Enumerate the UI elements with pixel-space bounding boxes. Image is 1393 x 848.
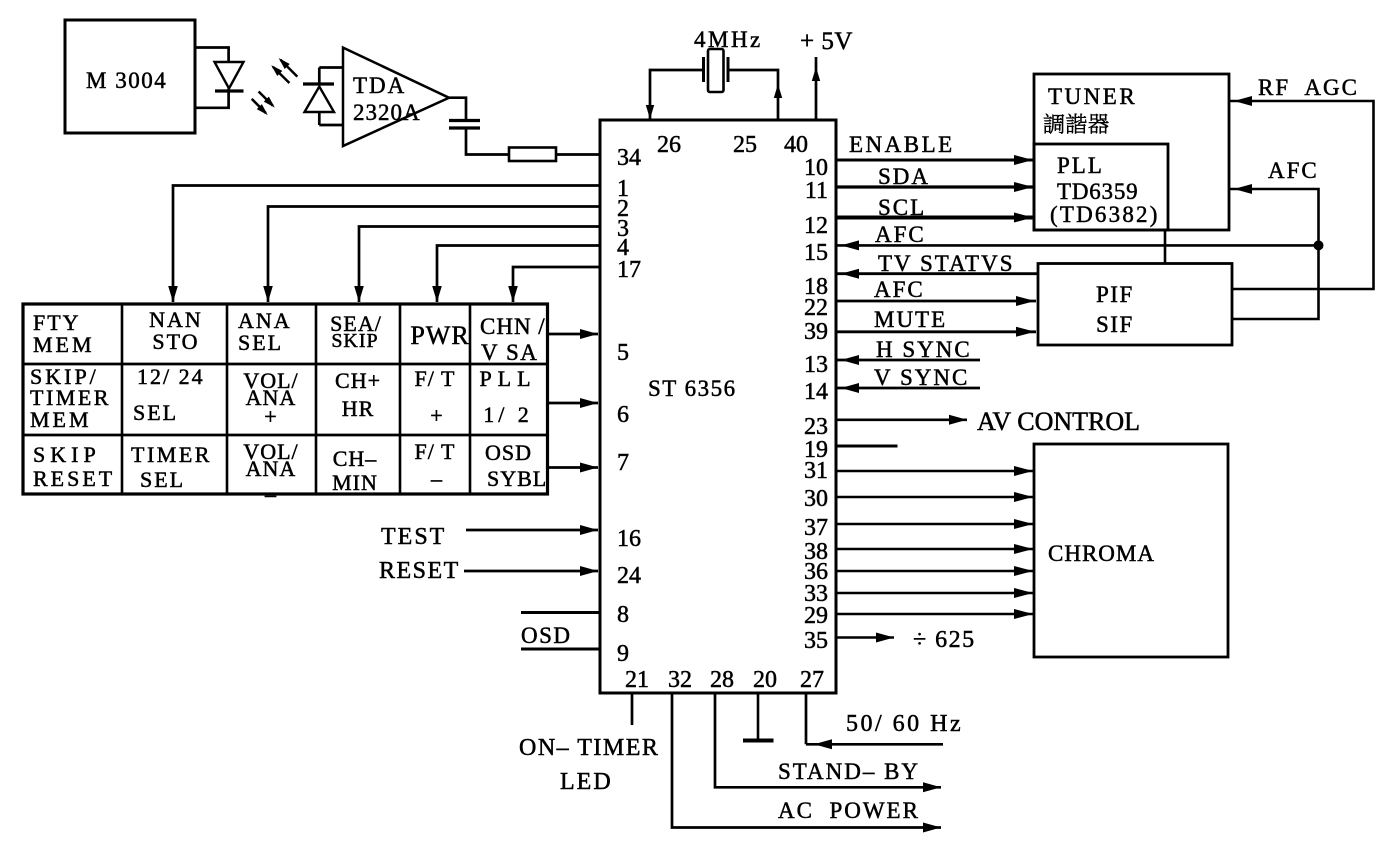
svg-text:PLL: PLL	[1057, 153, 1104, 178]
TUNER block	[1034, 74, 1229, 230]
wire pin 28 STAND-BY	[715, 693, 941, 792]
CHROMA block	[1034, 444, 1228, 657]
pin 10 label	[804, 155, 828, 181]
svg-text:ST 6356: ST 6356	[648, 376, 737, 401]
wire RESET to pin 24	[464, 566, 598, 576]
wire pin 36 to CHROMA	[836, 566, 1034, 576]
AFC label right	[1268, 158, 1319, 183]
wire PLL to PIF	[1164, 230, 1167, 264]
svg-text:CH–: CH–	[333, 446, 378, 471]
V SYNC label	[874, 365, 969, 390]
svg-text:PLL: PLL	[479, 366, 536, 391]
svg-text:28: 28	[710, 667, 734, 693]
AFC label pin 15	[875, 222, 926, 247]
svg-text:7: 7	[617, 450, 629, 476]
wire pin 33 to CHROMA	[836, 588, 1034, 598]
svg-text:14: 14	[804, 379, 828, 405]
wire pin 1 to key matrix column 1	[168, 186, 600, 303]
junction AFC node	[1314, 240, 1324, 250]
svg-text:MIN: MIN	[332, 470, 378, 495]
pin 30 label	[804, 486, 828, 512]
svg-text:+: +	[264, 404, 277, 429]
svg-text:+ 5V: + 5V	[800, 28, 853, 55]
pin 38 label	[804, 539, 828, 565]
pin 6 label	[617, 402, 629, 428]
+5V supply	[800, 28, 853, 55]
svg-text:22: 22	[804, 295, 828, 321]
divide by 625 label	[913, 627, 976, 653]
svg-text:MEM: MEM	[30, 407, 92, 432]
wire 50/60Hz to pin 27	[806, 693, 943, 749]
svg-text:ENABLE: ENABLE	[849, 132, 955, 157]
svg-text:SDA: SDA	[878, 164, 930, 189]
svg-text:29: 29	[804, 603, 828, 629]
ground pin 20	[743, 693, 774, 741]
svg-text:20: 20	[753, 667, 777, 693]
wire pin 38 to CHROMA	[836, 544, 1034, 554]
svg-text:21: 21	[625, 667, 649, 693]
pin 19 label	[804, 437, 828, 463]
50/60Hz label	[846, 711, 963, 737]
svg-text:50/ 60 Hz: 50/ 60 Hz	[846, 711, 963, 737]
svg-text:RESET: RESET	[379, 558, 460, 584]
svg-text:ON– TIMER: ON– TIMER	[519, 735, 659, 761]
svg-text:–: –	[430, 466, 443, 491]
key OSD SYBL	[485, 440, 547, 491]
AFC label pin 22	[874, 277, 925, 302]
svg-text:CHROMA: CHROMA	[1048, 541, 1155, 566]
svg-text:5: 5	[617, 340, 629, 366]
svg-text:24: 24	[617, 563, 641, 589]
pin 31 label	[804, 458, 828, 484]
pin 4 label	[617, 235, 629, 261]
svg-text:12: 12	[804, 213, 828, 239]
H SYNC label	[876, 337, 972, 362]
svg-text:4MHz: 4MHz	[694, 27, 763, 52]
pin 36 label	[804, 559, 828, 585]
pin 20 label	[753, 667, 777, 693]
SCL label	[878, 195, 926, 220]
pin 40 label	[784, 132, 808, 158]
wire pin 13 H SYNC	[836, 355, 980, 365]
svg-text:(TD6382): (TD6382)	[1050, 202, 1160, 227]
wire M3004 to LED anode	[195, 48, 229, 63]
LED D1 infrared emitter	[215, 62, 244, 92]
crystal X1 4MHz	[694, 27, 763, 92]
svg-text:SYBL: SYBL	[487, 466, 547, 491]
IC U4 PLL TD6359 block	[1034, 144, 1168, 230]
wire pin 2 to key matrix column 2	[263, 207, 600, 303]
key SKIP RESET	[33, 442, 115, 491]
pin 27 label	[800, 667, 824, 693]
pin 17 label	[617, 257, 641, 283]
key CHN/VSA	[480, 314, 546, 365]
svg-text:HR: HR	[342, 396, 375, 421]
svg-text:31: 31	[804, 458, 828, 484]
key 12/24 SEL	[133, 364, 205, 425]
pin 18 label	[804, 274, 828, 300]
wire pin 15 AFC	[836, 240, 1319, 250]
pin 25 label	[733, 132, 757, 158]
STAND-BY label	[778, 759, 920, 784]
svg-text:34: 34	[617, 145, 641, 171]
svg-text:F/ T: F/ T	[415, 439, 456, 464]
wire pin 3 to key matrix column 3	[354, 227, 600, 303]
IR beam arrows lower pair	[252, 92, 278, 118]
svg-text:SEL: SEL	[238, 330, 283, 355]
RESET signal label	[379, 558, 460, 584]
pin 1 label	[617, 176, 629, 202]
svg-text:V SYNC: V SYNC	[874, 365, 969, 390]
pin 33 label	[804, 581, 828, 607]
wire key matrix row to pin 5	[548, 329, 599, 339]
pin 35 label	[804, 628, 828, 654]
pin 13 label	[804, 352, 828, 378]
pin 2 label	[617, 196, 629, 222]
pin 32 label	[668, 667, 692, 693]
svg-text:SEL: SEL	[140, 467, 185, 492]
wire pin 17 to key matrix column 5	[508, 267, 600, 302]
svg-text:STAND– BY: STAND– BY	[778, 759, 920, 784]
key SKIP/TIMER MEM	[30, 364, 111, 432]
svg-text:LED: LED	[560, 769, 613, 795]
pin 39 label	[804, 319, 828, 345]
svg-text:16: 16	[617, 526, 641, 552]
svg-text:CH+: CH+	[335, 368, 381, 393]
svg-text:32: 32	[668, 667, 692, 693]
wire pin 14 V SYNC	[836, 383, 980, 393]
pin 26 label	[657, 132, 681, 158]
svg-text:15: 15	[804, 240, 828, 266]
svg-text:÷ 625: ÷ 625	[913, 627, 976, 653]
svg-text:35: 35	[804, 628, 828, 654]
svg-text:SCL: SCL	[878, 195, 926, 220]
svg-text:CHN /: CHN /	[480, 314, 546, 339]
wire pin 29 to CHROMA	[836, 609, 1034, 619]
pin 24 label	[617, 563, 641, 589]
key F/T -	[415, 439, 456, 491]
svg-text:AFC: AFC	[1268, 158, 1319, 183]
wire pin 32 AC POWER	[672, 693, 941, 833]
svg-text:37: 37	[804, 515, 828, 541]
tuner Chinese label	[1044, 114, 1109, 134]
key FTY MEM	[33, 310, 95, 357]
key TIMER SEL	[131, 442, 212, 492]
op-amp U3 TDA2320A	[343, 48, 449, 146]
pin 5 label	[617, 340, 629, 366]
wire capacitor to resistor	[466, 128, 509, 155]
wire pin 35 divider output	[836, 633, 894, 643]
keyboard matrix table frame	[23, 304, 548, 494]
key F/T +	[415, 366, 456, 428]
capacitor C1	[449, 121, 480, 129]
wire key matrix row to pin 6	[548, 398, 599, 408]
svg-text:PWR: PWR	[410, 321, 469, 350]
svg-text:+: +	[430, 403, 443, 428]
pin 34 label	[617, 145, 641, 171]
pin 8 label	[617, 602, 629, 628]
svg-text:26: 26	[657, 132, 681, 158]
wire pin 22 AFC to PIF	[836, 296, 1036, 306]
wire resistor to pin 34	[556, 153, 600, 156]
svg-text:AC POWER: AC POWER	[778, 798, 920, 823]
OSD signal label	[521, 623, 572, 648]
SDA label	[878, 164, 930, 189]
key VOL/ANA-	[243, 439, 298, 499]
wire pin 39 MUTE to PIF	[836, 327, 1036, 337]
svg-text:11: 11	[805, 178, 828, 204]
IR beam arrows upper pair	[269, 55, 298, 83]
svg-text:SKIP: SKIP	[331, 330, 378, 352]
wire crystal to pin 25	[728, 70, 782, 120]
photodiode D2	[303, 84, 334, 112]
key SEA/SKIP	[330, 311, 382, 352]
svg-text:V SA: V SA	[481, 340, 538, 365]
wire pin 21 to LED indicator	[631, 693, 634, 725]
wire photodiode to amplifier input	[319, 68, 343, 126]
svg-text:SEL: SEL	[133, 400, 178, 425]
resistor R1	[509, 148, 556, 162]
svg-text:MUTE: MUTE	[874, 307, 947, 332]
wire amplifier output to capacitor	[449, 98, 466, 120]
wire pin 37 to CHROMA	[836, 519, 1034, 529]
wire pin 12 SCL to PLL	[836, 213, 1034, 223]
pin 12 label	[804, 213, 828, 239]
pin 16 label	[617, 526, 641, 552]
MUTE label	[874, 307, 947, 332]
pin 22 label	[804, 295, 828, 321]
key NAN STO	[149, 307, 203, 354]
ENABLE label	[849, 132, 955, 157]
svg-text:30: 30	[804, 486, 828, 512]
svg-text:STO: STO	[152, 329, 199, 354]
key VOL/ANA+	[243, 368, 298, 429]
svg-text:TEST: TEST	[381, 524, 446, 550]
wire pin 30 to CHROMA	[836, 492, 1034, 502]
key CH+ HR	[335, 368, 381, 421]
AV CONTROL label	[977, 407, 1140, 436]
svg-text:H SYNC: H SYNC	[876, 337, 972, 362]
svg-text:13: 13	[804, 352, 828, 378]
wire pin 11 SDA to PLL	[836, 182, 1034, 192]
svg-text:25: 25	[733, 132, 757, 158]
IC U1 ST6356 microcontroller	[600, 120, 836, 693]
PIF SIF block	[1038, 264, 1232, 346]
pin 28 label	[710, 667, 734, 693]
svg-text:RESET: RESET	[33, 466, 115, 491]
svg-text:2320A: 2320A	[353, 100, 421, 125]
AC POWER label	[778, 798, 920, 823]
pin 11 label	[805, 178, 828, 204]
svg-text:AV CONTROL: AV CONTROL	[977, 407, 1140, 436]
svg-text:17: 17	[617, 257, 641, 283]
svg-text:M 3004: M 3004	[86, 68, 167, 93]
wire AFC loop	[1229, 184, 1319, 319]
RF AGC label	[1258, 75, 1359, 100]
svg-text:1/ 2: 1/ 2	[483, 402, 533, 427]
svg-text:RF AGC: RF AGC	[1258, 75, 1359, 100]
key PWR	[410, 321, 469, 350]
key CH- MIN	[332, 446, 378, 495]
svg-text:TDA: TDA	[353, 73, 406, 98]
svg-text:TUNER: TUNER	[1048, 84, 1137, 109]
svg-text:F/ T: F/ T	[415, 366, 456, 391]
wire pin 10 ENABLE to PLL	[836, 155, 1034, 165]
pin 21 label	[625, 667, 649, 693]
wire to pin 8	[521, 611, 600, 614]
svg-text:SIF: SIF	[1096, 312, 1134, 337]
pin 3 label	[617, 216, 629, 242]
wire pin 19	[836, 445, 898, 448]
wire pin 23 AV CONTROL	[836, 415, 967, 425]
svg-text:27: 27	[800, 667, 824, 693]
wire pin 4 to key matrix column 4	[432, 246, 600, 303]
svg-text:PIF: PIF	[1096, 282, 1134, 307]
TEST signal label	[381, 524, 446, 550]
wire +5V to pin 40	[812, 57, 820, 120]
svg-text:AFC: AFC	[875, 222, 926, 247]
wire pin 31 to CHROMA	[836, 466, 1034, 476]
svg-text:9: 9	[617, 641, 629, 667]
pin 29 label	[804, 603, 828, 629]
pin 9 label	[617, 641, 629, 667]
key PLL 1/2	[479, 366, 536, 427]
wire pin 18 TV STATUS to PIF	[836, 269, 1038, 279]
svg-text:MEM: MEM	[33, 332, 95, 357]
svg-text:SKIP: SKIP	[33, 442, 101, 467]
svg-text:39: 39	[804, 319, 828, 345]
pin 15 label	[804, 240, 828, 266]
TV STATVS label	[878, 251, 1015, 276]
svg-text:OSD: OSD	[485, 440, 532, 465]
svg-text:_: _	[264, 474, 277, 499]
wire crystal to pin 26	[646, 70, 704, 119]
svg-text:TD6359: TD6359	[1057, 179, 1138, 204]
wire TEST to pin 16	[466, 525, 598, 535]
wire RF AGC loop	[1229, 96, 1374, 289]
pin 37 label	[804, 515, 828, 541]
svg-text:TIMER: TIMER	[131, 442, 212, 467]
svg-text:6: 6	[617, 402, 629, 428]
svg-text:OSD: OSD	[521, 623, 572, 648]
IC U2 M3004 infrared receiver box	[65, 20, 195, 133]
wire OSD to pin 9	[521, 648, 600, 651]
svg-text:8: 8	[617, 602, 629, 628]
svg-text:12/ 24: 12/ 24	[137, 364, 205, 389]
wire LED cathode to M3004	[195, 91, 229, 108]
key ANA SEL	[238, 308, 292, 355]
wire key matrix row to pin 7	[548, 463, 599, 473]
pin 23 label	[804, 414, 828, 440]
pin 7 label	[617, 450, 629, 476]
ON-TIMER LED label	[519, 735, 659, 795]
svg-text:TV STATVS: TV STATVS	[878, 251, 1015, 276]
svg-text:AFC: AFC	[874, 277, 925, 302]
pin 14 label	[804, 379, 828, 405]
